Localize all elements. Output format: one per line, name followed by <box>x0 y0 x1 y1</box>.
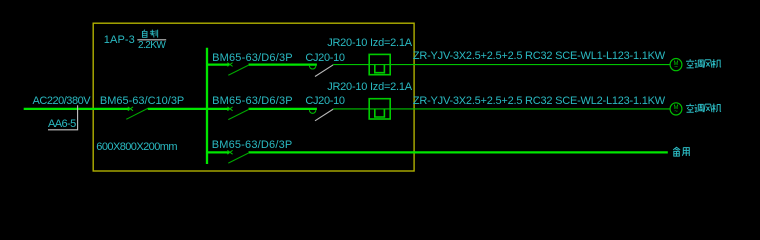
svg-text:~: ~ <box>674 108 678 115</box>
svg-text:~: ~ <box>674 64 678 71</box>
